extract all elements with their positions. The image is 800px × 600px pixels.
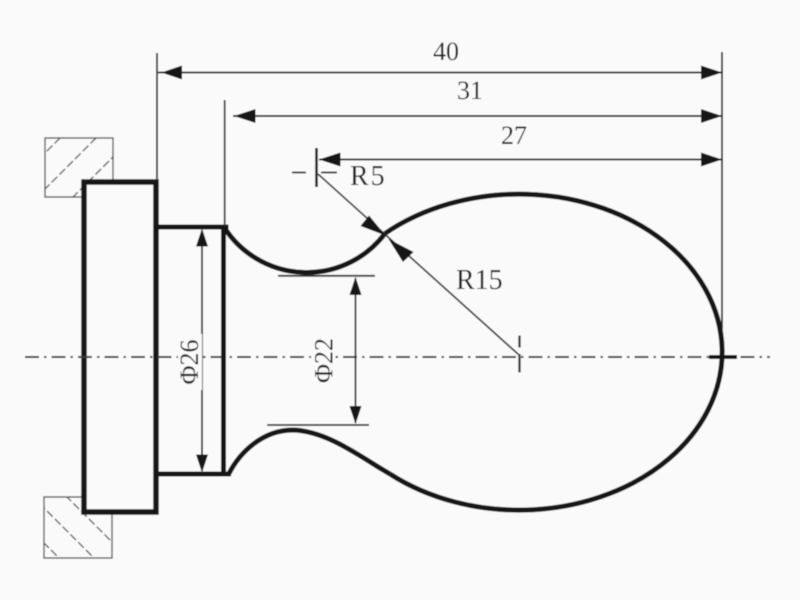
dim phi26 top arrowhead [196, 229, 208, 247]
part end-face vertical line [221, 225, 226, 476]
svg-text:31: 31 [457, 76, 483, 105]
dim 27 line [319, 159, 722, 161]
label phi26 background [178, 334, 202, 390]
R5 leader arrowhead [361, 216, 386, 236]
chuck jaw hatch block bottom [0, 480, 140, 570]
svg-text:Φ26: Φ26 [175, 339, 204, 384]
dim right extension line [721, 52, 723, 330]
R5 center cross horizontal dash right [321, 172, 337, 174]
svg-text:27: 27 [501, 121, 527, 150]
dim 40 line [158, 72, 722, 74]
svg-text:Φ22: Φ22 [310, 338, 339, 383]
dim phi22 top arrowhead [350, 277, 362, 295]
sphere outline R15 [385, 194, 722, 510]
svg-text:R5: R5 [350, 161, 387, 192]
svg-text:R15: R15 [456, 265, 503, 296]
R5 center cross horizontal dash left [292, 172, 306, 174]
part cylinder bottom edge [156, 472, 231, 477]
centerline bold dash at sphere right [709, 355, 737, 359]
dim 27 left arrowhead [319, 153, 341, 167]
R15 leader arrowhead [389, 239, 414, 262]
chuck body [84, 182, 156, 512]
dim 40 left extension line [156, 53, 158, 180]
R15 center tick lower [518, 354, 520, 373]
dim 27 tick [315, 148, 318, 187]
dim phi26 bottom arrowhead [196, 455, 208, 473]
dim phi22 bottom arrowhead [350, 406, 362, 424]
dim 27 right arrowhead [701, 153, 722, 167]
radius leader line R5-R15 [318, 174, 519, 355]
dim phi22 bottom extension line [267, 424, 369, 426]
dim 31 left extension line [224, 100, 226, 226]
dim 31 left arrowhead [234, 109, 256, 123]
centerline [25, 356, 770, 358]
svg-text:40: 40 [433, 37, 459, 66]
part cylinder top edge [156, 225, 229, 230]
dim 31 line [233, 115, 722, 117]
dim phi22 line [355, 278, 357, 423]
R15 center tick upper [518, 336, 520, 348]
dim 40 left arrowhead [162, 66, 183, 80]
neck concave curve top [224, 227, 385, 272]
dim phi22 top extension line [278, 275, 375, 277]
dim 40 right arrowhead [701, 66, 722, 80]
neck concave curve bottom [229, 430, 390, 474]
chuck jaw hatch block top [0, 130, 140, 210]
dim phi26 line [201, 230, 203, 471]
label phi22 background [311, 334, 335, 388]
dim 31 right arrowhead [701, 109, 722, 123]
